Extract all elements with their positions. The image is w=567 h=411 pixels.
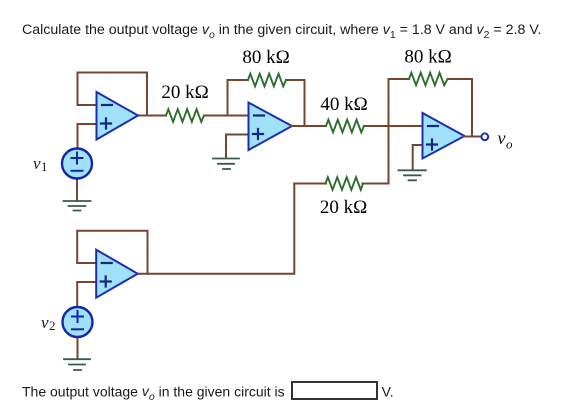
wire op1 plus input from v1: [78, 124, 97, 149]
V1 plus sign: [72, 153, 83, 164]
wire op4 output long to 20k row: [137, 184, 295, 274]
svg-text:80 kΩ: 80 kΩ: [404, 47, 451, 68]
resistor R3 40k: [326, 120, 364, 133]
wire v2 to ground: [77, 337, 79, 359]
wire 80k right down to output: [286, 80, 305, 126]
wire op3 plus to ground: [413, 145, 423, 170]
ground G1: [64, 201, 91, 211]
svg-text:v: v: [41, 313, 49, 332]
wire op4 plus from v2: [77, 282, 96, 307]
svg-text:v: v: [498, 128, 506, 148]
footer answer text: [22, 381, 394, 403]
U2 minus symbol: [254, 114, 264, 116]
V1 minus sign: [72, 170, 83, 172]
U3 plus symbol: [427, 140, 437, 150]
wire op3 feedback loop: [389, 79, 410, 126]
U2 plus symbol: [253, 129, 263, 139]
source V2 circle: [63, 307, 93, 337]
resistor R2 80k: [248, 74, 286, 87]
wire 20k right to op2: [204, 115, 249, 117]
wire op2 output row through 40k to op3 minus: [291, 125, 326, 127]
V2 minus sign: [72, 328, 83, 330]
U4 minus symbol: [102, 262, 112, 264]
output terminal circle: [481, 133, 488, 140]
ground G4: [64, 359, 90, 370]
svg-text:20 kΩ: 20 kΩ: [161, 82, 208, 103]
op-amp U4: [96, 250, 138, 298]
wire op1 feedback loop: [78, 73, 148, 116]
ground G2: [213, 159, 239, 170]
svg-text:40 kΩ: 40 kΩ: [320, 94, 367, 115]
wire op1 output row to op2 minus: [137, 115, 166, 117]
V2 plus sign: [72, 311, 83, 322]
wire op3 output to terminal: [464, 136, 482, 138]
source V1 circle: [62, 149, 92, 179]
header problem text: [22, 22, 541, 41]
op-amp U1: [97, 92, 139, 140]
U1 minus symbol: [102, 104, 112, 106]
resistor R1 20k: [166, 109, 204, 122]
wire 20k row: [294, 183, 326, 185]
wire op2 feedback loop: [228, 80, 249, 116]
svg-text:20 kΩ: 20 kΩ: [320, 197, 367, 218]
wire op4 feedback loop: [77, 231, 147, 274]
U4 plus symbol: [101, 277, 111, 287]
svg-text:v: v: [33, 154, 41, 173]
wire v1 to ground: [76, 179, 78, 201]
svg-text:2: 2: [49, 318, 56, 333]
U3 minus symbol: [428, 125, 438, 127]
svg-text:o: o: [506, 137, 513, 152]
svg-text:80 kΩ: 80 kΩ: [242, 47, 289, 68]
wire op2 plus to ground: [226, 135, 249, 159]
U1 plus symbol: [101, 119, 111, 129]
ground G3: [398, 170, 426, 180]
op-amp U3: [423, 113, 465, 159]
wire node down to 20k row: [388, 126, 390, 184]
resistor R4 80k: [409, 73, 448, 86]
op-amp U2: [249, 103, 293, 151]
svg-text:1: 1: [41, 159, 48, 174]
resistor R5 20k: [326, 177, 364, 190]
